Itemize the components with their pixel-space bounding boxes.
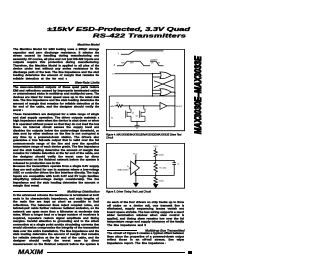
resistor RS bbox=[114, 105, 160, 107]
crossover wires bbox=[154, 76, 175, 93]
right column paragraph B bbox=[107, 232, 185, 245]
resistor chain stem bbox=[155, 148, 157, 150]
source join wire bbox=[131, 122, 145, 126]
buffer U2 bbox=[160, 103, 175, 110]
svg-text:tSKEW: tSKEW bbox=[150, 59, 158, 62]
rule above heading C bbox=[13, 190, 57, 193]
svg-text:500Ω: 500Ω bbox=[159, 154, 164, 156]
heading A bbox=[13, 43, 100, 50]
sidebar part number bbox=[193, 74, 202, 134]
mosfet Q2 bbox=[139, 106, 145, 122]
driver ground stem bbox=[135, 173, 137, 184]
figure 1 bbox=[106, 49, 185, 132]
driver D1 bbox=[131, 161, 140, 175]
paragraph 3 bbox=[13, 113, 100, 165]
svg-text:DI: DI bbox=[112, 74, 115, 76]
rail wire bbox=[109, 95, 175, 97]
ground bbox=[134, 126, 139, 129]
heading C bbox=[13, 190, 100, 197]
loop wire bbox=[109, 96, 175, 127]
input bus vertical bbox=[151, 74, 153, 96]
svg-text:CL: CL bbox=[177, 164, 181, 166]
figure 1 caption bbox=[106, 134, 185, 145]
driver input wire bbox=[129, 167, 131, 169]
last-line whitespace covers bbox=[67, 77, 100, 82]
rule below heading B bbox=[13, 84, 100, 87]
heading B bbox=[13, 81, 100, 88]
driver ground bbox=[134, 183, 138, 186]
svg-text:VCC: VCC bbox=[154, 146, 159, 148]
footer logo MAXIM bbox=[18, 249, 78, 260]
svg-text:500Ω: 500Ω bbox=[159, 180, 164, 182]
svg-text:A: A bbox=[127, 165, 129, 168]
resistor R3 bbox=[154, 175, 157, 184]
output wire Z bbox=[135, 171, 156, 175]
gate 1 bbox=[152, 72, 171, 79]
svg-text:Q1: Q1 bbox=[132, 113, 135, 115]
svg-text:VCC: VCC bbox=[133, 153, 138, 155]
svg-text:Y: Y bbox=[117, 52, 119, 56]
output wire Y bbox=[135, 160, 174, 164]
paragraph 4 bbox=[13, 165, 100, 188]
rule above heading D bbox=[107, 229, 137, 232]
paragraph 1 bbox=[13, 48, 100, 81]
paragraph 2 bbox=[13, 86, 100, 112]
mosfet Q1 bbox=[125, 106, 131, 122]
figure 2 frame bbox=[106, 143, 184, 188]
figure 2 caption bbox=[106, 191, 185, 197]
svg-text:Q2: Q2 bbox=[135, 116, 138, 118]
waveform Y bbox=[121, 51, 164, 54]
node Z junction bbox=[155, 175, 156, 176]
junction dots bbox=[152, 73, 153, 74]
svg-text:RS: RS bbox=[116, 103, 119, 105]
resistor R2 bbox=[154, 160, 157, 175]
svg-text:Z: Z bbox=[113, 63, 115, 67]
waveform A bbox=[117, 61, 164, 65]
title line 1 bbox=[0, 26, 190, 52]
svg-text:S1: S1 bbox=[111, 118, 113, 120]
gate 2 bbox=[152, 89, 171, 96]
figure 1 frame bbox=[106, 50, 184, 131]
right vertical wire bbox=[174, 76, 176, 127]
input wire bbox=[115, 73, 153, 75]
right column paragraph A bbox=[107, 201, 185, 227]
svg-text:(MAX3030E): (MAX3030E) bbox=[118, 168, 129, 171]
footer rule bbox=[47, 251, 186, 254]
chain ground bbox=[154, 184, 158, 188]
capacitor CL bbox=[156, 163, 176, 176]
svg-text:AIN: AIN bbox=[110, 105, 114, 108]
heading D bbox=[107, 229, 185, 236]
figure 2 bbox=[106, 143, 185, 189]
rule above heading B bbox=[13, 81, 69, 84]
paragraph 5 bbox=[13, 194, 100, 246]
footer page number bbox=[188, 251, 192, 254]
skew arrows bbox=[121, 62, 160, 64]
driver vcc stem bbox=[135, 155, 137, 164]
svg-text:RL 54Ω: RL 54Ω bbox=[159, 168, 166, 170]
resistor R1 bbox=[154, 150, 157, 160]
svg-text:BOUT: BOUT bbox=[176, 106, 183, 108]
node Y junction bbox=[155, 160, 156, 161]
